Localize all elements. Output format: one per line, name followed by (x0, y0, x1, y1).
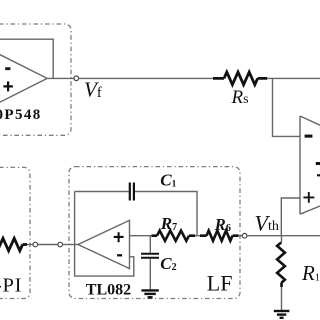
svg-text:0P548: 0P548 (0, 107, 42, 123)
wire: -PI resistor to first terminal (27, 244, 33, 246)
wire: U2 feedback loop (output up, around via C1 rail, and down to inverting input) (75, 192, 134, 277)
op-amp U2 inverting input '-' sign (117, 254, 122, 256)
resistor Rs (213, 72, 267, 85)
wire: Rs to right edge (top rail) (267, 77, 320, 79)
ground symbol below C2 (141, 290, 158, 297)
wire: node Vf to resistor Rs (79, 77, 214, 79)
wire: C2 to ground (149, 259, 151, 289)
op-amp U3 hysteresis mark upper dash (316, 162, 320, 165)
dash-dot box: OP548 amplifier block (0, 24, 71, 135)
wire: top rail down to comparator inverting input (273, 78, 301, 136)
wire: U2 non-inverting input to C2/R7 junction (130, 235, 152, 237)
capacitor C1 (130, 183, 134, 201)
svg-text:-PI: -PI (0, 275, 22, 297)
terminal circle 2 between blocks (58, 242, 63, 247)
op-amp U2 (TL082), output pointing left (78, 220, 130, 268)
dash-dot box: LF low-pass filter block (69, 167, 240, 299)
wire: R7 to R6 junction (195, 235, 200, 237)
op-amp U1 inverting input '-' sign (5, 67, 10, 70)
op-amp U1 non-inverting input '+' sign (3, 81, 13, 91)
resistor R1 (277, 236, 285, 310)
op-amp U1 (OP548), clipped at left image edge (0, 35, 47, 123)
op-amp U3 comparator, clipped at right image edge (300, 116, 320, 214)
wire: C1 rail right segment down to R7/R6 junction (135, 192, 197, 236)
resistor R6 (200, 231, 239, 241)
wire: U1 feedback from output to inverting input (0, 39, 53, 78)
wire: node Vth rail to right edge (247, 235, 320, 237)
ground symbol below R1 (274, 311, 290, 318)
wire: terminal 2 to op-amp U2 output (63, 244, 78, 246)
wire: U1 output to terminal (47, 77, 74, 79)
svg-text:TL082: TL082 (86, 282, 131, 299)
terminal circle 1 between blocks (33, 242, 38, 247)
wire: R6 to LF output terminal (239, 235, 243, 237)
wire between terminals (38, 244, 58, 246)
svg-text:LF: LF (207, 270, 233, 295)
wire: C1 rail left segment (75, 191, 129, 193)
op-amp U2 non-inverting input '+' sign (114, 232, 124, 242)
op-amp U3 non-inverting input '+' sign (303, 192, 314, 203)
resistor R7 (152, 231, 196, 241)
wire: junction down to capacitor C2 (149, 236, 151, 253)
capacitor C2 (141, 254, 159, 258)
op-amp U3 inverting input '-' sign (305, 135, 313, 138)
terminal circle at node Vf (74, 76, 79, 81)
dash-dot box: -PI controller block (0, 167, 30, 298)
terminal circle at LF output (242, 233, 247, 238)
resistor R8 in -PI block, clipped at left image edge (0, 238, 27, 250)
wire: comparator non-inverting input to node Vth (281, 198, 300, 236)
op-amp U3 hysteresis mark lower dash (317, 174, 320, 176)
